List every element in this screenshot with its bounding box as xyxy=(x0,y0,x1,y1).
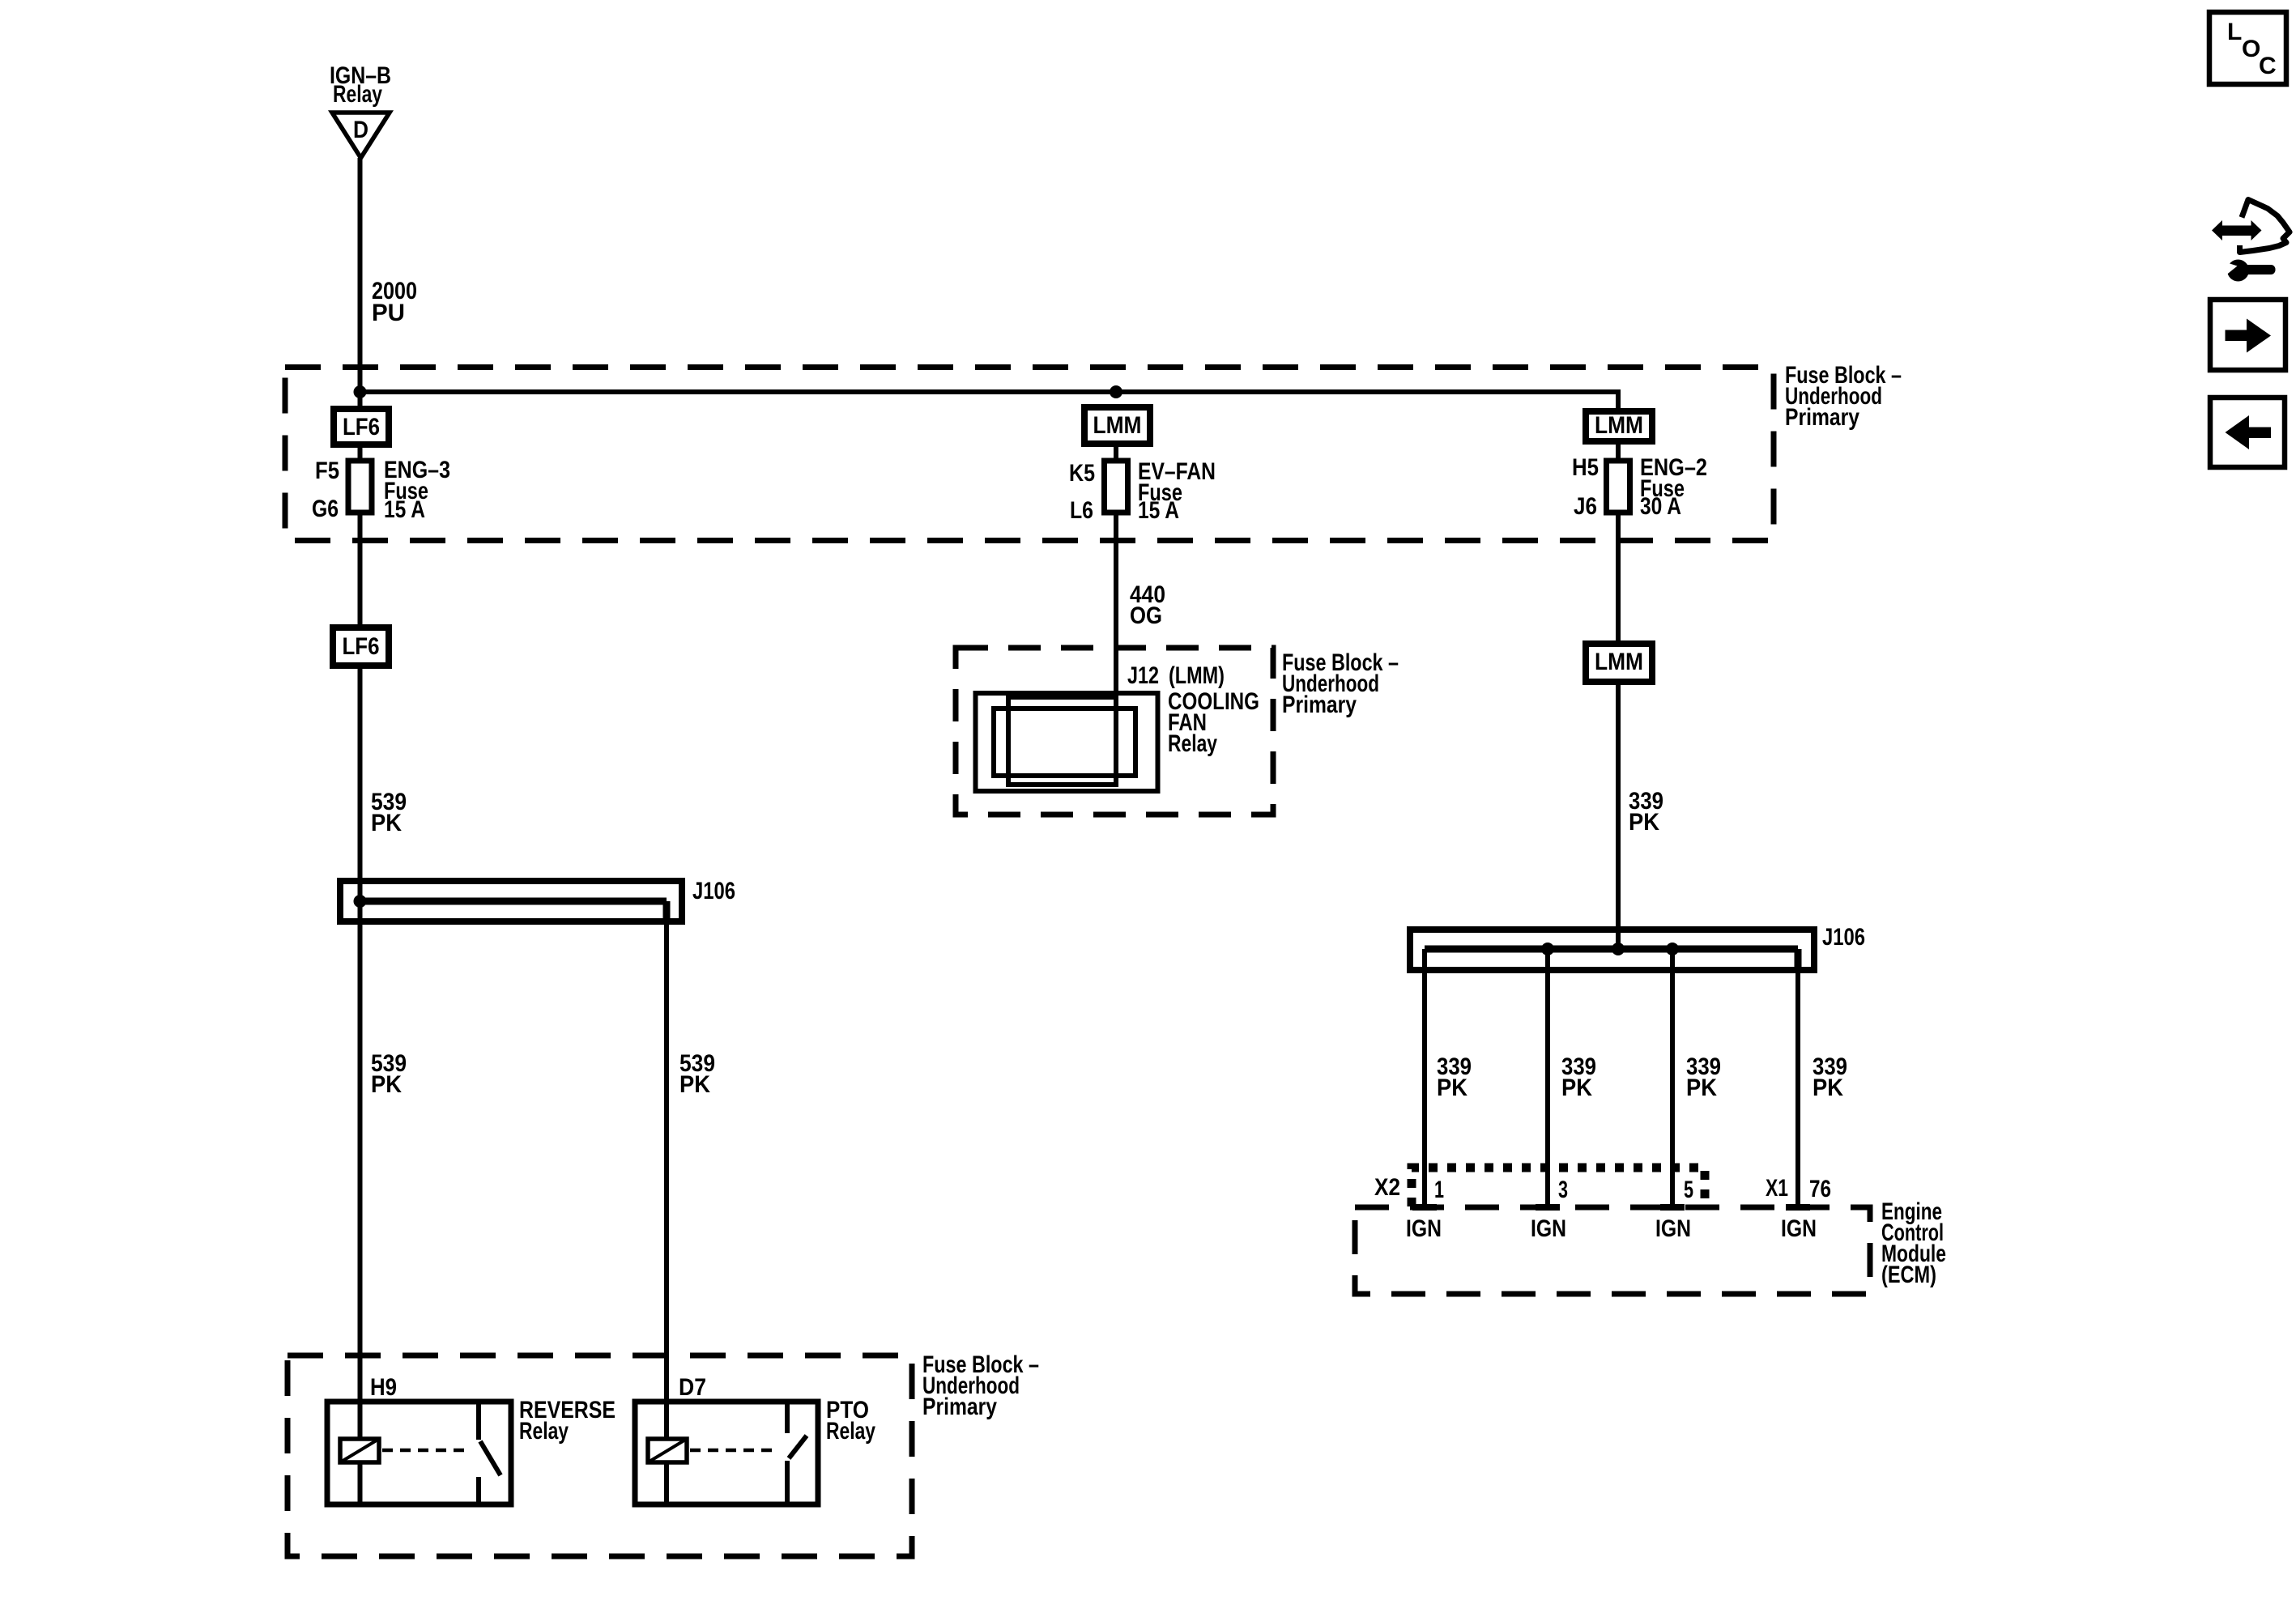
value label 440 OG xyxy=(1130,581,1165,629)
svg-text:J106: J106 xyxy=(1822,924,1865,951)
svg-text:IGN: IGN xyxy=(1531,1215,1566,1242)
svg-text:LF6: LF6 xyxy=(343,414,380,440)
svg-text:H5: H5 xyxy=(1572,454,1599,481)
connector LF6 (top) xyxy=(334,409,389,445)
Fuse Block - Underhood Primary (top) dashed outline xyxy=(285,368,1774,541)
fuse EV-FAN 15 A xyxy=(1105,444,1128,513)
connector X2 dotted outline xyxy=(1412,1168,1705,1206)
fuse ENG-3 15 A xyxy=(348,445,372,513)
svg-text:J6: J6 xyxy=(1574,493,1597,520)
fuse ENG-2 30 A xyxy=(1607,441,1630,513)
label Fuse Block - Underhood Primary (bottom) xyxy=(922,1351,1039,1420)
svg-text:G6: G6 xyxy=(312,496,339,522)
junction at J106 left xyxy=(354,895,367,908)
wire 539 PK : LF6 to splice J106 xyxy=(358,666,363,901)
svg-text:(ECM): (ECM) xyxy=(1881,1262,1936,1288)
svg-text:LMM: LMM xyxy=(1595,649,1643,675)
svg-text:Primary: Primary xyxy=(1785,404,1859,431)
svg-text:30 A: 30 A xyxy=(1640,493,1681,520)
icon LOC box xyxy=(2209,12,2286,84)
relay REVERSE Relay xyxy=(327,1402,511,1504)
svg-text:Relay: Relay xyxy=(333,81,382,108)
svg-text:C: C xyxy=(2259,53,2277,79)
connector LF6 (lower) xyxy=(333,628,389,666)
svg-text:L6: L6 xyxy=(1070,497,1093,524)
svg-text:IGN: IGN xyxy=(1655,1215,1691,1242)
relay PTO Relay xyxy=(635,1402,818,1504)
svg-text:OG: OG xyxy=(1130,602,1162,629)
svg-text:H9: H9 xyxy=(370,1374,397,1401)
svg-text:PK: PK xyxy=(679,1071,710,1098)
svg-text:PK: PK xyxy=(1686,1074,1717,1101)
svg-text:Primary: Primary xyxy=(1282,691,1357,718)
connector LMM (top right) xyxy=(1586,411,1652,441)
svg-text:PK: PK xyxy=(1561,1074,1592,1101)
svg-text:IGN: IGN xyxy=(1781,1215,1817,1242)
svg-text:PK: PK xyxy=(1437,1074,1467,1101)
value label 539 PK (right leg) xyxy=(679,1050,715,1098)
svg-text:5: 5 xyxy=(1684,1177,1693,1203)
value label 339 PK xyxy=(1629,788,1663,836)
svg-text:D7: D7 xyxy=(679,1374,706,1401)
splice pack J106 (right) xyxy=(1410,930,1814,970)
wire : coil to relay frame (PTO) xyxy=(664,1462,669,1504)
pin terminal dashes under wires xyxy=(1412,1204,1810,1211)
label IGN-B Relay xyxy=(330,62,391,108)
svg-text:K5: K5 xyxy=(1069,460,1095,487)
svg-text:O: O xyxy=(2242,36,2260,62)
connector LMM (top middle) xyxy=(1084,407,1150,444)
value labels 339 PK x4 xyxy=(1437,1053,1847,1101)
Fuse Block - Underhood Primary (cooling fan) dashed outline xyxy=(956,648,1273,815)
svg-text:15 A: 15 A xyxy=(384,496,425,523)
label Fuse Block - Underhood Primary (top right) xyxy=(1785,362,1902,431)
junction dots on J106 bus xyxy=(1541,943,1679,955)
svg-text:D: D xyxy=(353,117,368,143)
value label ENG-3 Fuse 15 A xyxy=(384,457,450,523)
value label 539 PK xyxy=(371,789,407,836)
svg-text:1: 1 xyxy=(1434,1177,1444,1203)
wire 539 PK : ENG-3 fuse to LF6 out xyxy=(358,513,363,628)
splice pack J106 (left) xyxy=(340,881,682,921)
svg-text:PK: PK xyxy=(371,810,402,836)
svg-text:LF6: LF6 xyxy=(343,633,380,660)
svg-text:Primary: Primary xyxy=(922,1394,997,1420)
svg-text:Relay: Relay xyxy=(1168,730,1217,757)
svg-text:(LMM): (LMM) xyxy=(1169,662,1225,689)
wire 440 OG : EV-FAN fuse to cooling fan relay xyxy=(1114,513,1118,709)
svg-text:IGN: IGN xyxy=(1406,1215,1442,1242)
value label 2000 PU xyxy=(372,278,417,326)
svg-text:PK: PK xyxy=(371,1071,402,1098)
svg-text:PK: PK xyxy=(1629,809,1659,836)
svg-text:15 A: 15 A xyxy=(1138,497,1179,524)
icon forward arrow box xyxy=(2210,300,2285,370)
wire 339 PK : LMM to splice J106 xyxy=(1616,682,1621,949)
junction at LF6 drop xyxy=(354,385,367,398)
label COOLING FAN Relay xyxy=(1168,688,1259,757)
wire 539 PK : J106 to PTO Relay xyxy=(664,921,669,1439)
wire 2000 PU : triangle to fuse block bus xyxy=(358,158,363,409)
pin J12 (LMM) xyxy=(1127,662,1225,689)
relay coil : COOLING FAN Relay (box in box) xyxy=(976,693,1158,791)
icon service arrows and wrench xyxy=(2212,200,2290,282)
svg-text:PU: PU xyxy=(372,300,405,326)
svg-text:LMM: LMM xyxy=(1093,412,1142,439)
node D : IGN-B Relay feed triangle connector xyxy=(332,113,390,158)
Engine Control Module (ECM) dashed outline xyxy=(1355,1207,1870,1294)
svg-text:PK: PK xyxy=(1813,1074,1843,1101)
Fuse Block - Underhood Primary (bottom) dashed outline xyxy=(288,1355,912,1556)
label Fuse Block - Underhood Primary (middle) xyxy=(1282,649,1399,718)
wire 339 PK : J106 to ECM pin 76 xyxy=(1795,970,1800,1207)
wire 339 PK : J106 to ECM pin 5 xyxy=(1670,949,1675,1207)
value label EV-FAN Fuse 15 A xyxy=(1138,458,1216,524)
svg-text:76: 76 xyxy=(1809,1176,1831,1202)
svg-text:Relay: Relay xyxy=(519,1418,569,1445)
wire 339 PK : ENG-2 fuse to LMM out xyxy=(1616,513,1621,644)
wire 339 PK : J106 to ECM pin 3 xyxy=(1545,949,1550,1207)
icon back arrow box xyxy=(2210,398,2285,467)
wire bus : horizontal feed inside fuse block xyxy=(360,389,1619,411)
wire 339 PK : J106 to ECM pin 1 xyxy=(1422,949,1427,1207)
net IGN labels xyxy=(1406,1215,1817,1242)
svg-text:L: L xyxy=(2227,19,2242,45)
wire : coil to relay frame (REVERSE) xyxy=(358,1462,363,1504)
label PTO Relay xyxy=(826,1397,875,1445)
svg-text:Relay: Relay xyxy=(826,1418,875,1445)
value label 539 PK (left leg) xyxy=(371,1050,407,1098)
wire 539 PK : J106 to REVERSE Relay xyxy=(358,901,363,1439)
svg-text:3: 3 xyxy=(1558,1177,1568,1203)
connector LMM (lower) xyxy=(1586,644,1652,682)
svg-text:J106: J106 xyxy=(692,878,735,904)
svg-text:J12: J12 xyxy=(1127,662,1159,689)
svg-text:LMM: LMM xyxy=(1595,412,1643,439)
svg-text:X1: X1 xyxy=(1766,1175,1788,1202)
value label ENG-2 Fuse 30 A xyxy=(1640,454,1707,520)
label Engine Control Module (ECM) xyxy=(1881,1198,1946,1288)
junction at LMM drop xyxy=(1110,385,1122,398)
svg-text:X2: X2 xyxy=(1374,1174,1400,1201)
svg-text:F5: F5 xyxy=(315,457,339,484)
label REVERSE Relay xyxy=(519,1397,616,1445)
